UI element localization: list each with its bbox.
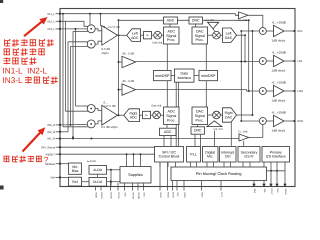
svg-text:steps: steps	[102, 51, 110, 55]
svg-text:Ref: Ref	[51, 176, 56, 180]
svg-text:1dB steps: 1dB steps	[272, 129, 286, 133]
svg-text:AGC: AGC	[164, 130, 172, 134]
svg-text:WCLK: WCLK	[284, 189, 287, 196]
svg-text:GPIO: GPIO	[183, 192, 186, 198]
svg-text:0.5 dB steps: 0.5 dB steps	[101, 125, 118, 129]
svg-text:-72...6dB: -72...6dB	[237, 130, 248, 133]
svg-text:miniDSP: miniDSP	[201, 74, 216, 78]
svg-text:DAC: DAC	[225, 116, 233, 120]
svg-text:VSS: VSS	[124, 192, 127, 197]
svg-text:Right: Right	[225, 111, 233, 115]
svg-text:VSS: VSS	[143, 192, 146, 197]
svg-text:IOVSS: IOVSS	[132, 192, 135, 199]
svg-text:?: ?	[44, 155, 49, 165]
svg-text:-36...0 dB: -36...0 dB	[122, 52, 135, 56]
svg-text:ALDO: ALDO	[93, 168, 102, 172]
svg-text:SSZ: SSZ	[176, 192, 179, 197]
svg-text:IN3_R: IN3_R	[47, 123, 55, 127]
svg-text:LOL: LOL	[297, 59, 303, 63]
svg-text:Pin Muxing/ Clock Routing: Pin Muxing/ Clock Routing	[196, 171, 242, 176]
svg-text:DVSS: DVSS	[117, 192, 120, 198]
svg-text:SDA: SDA	[253, 189, 256, 194]
svg-text:Ctrl: Ctrl	[225, 155, 231, 159]
svg-text:DIN2: DIN2	[201, 192, 204, 198]
svg-text:IN1-L IN2-L: IN1-L IN2-L	[3, 67, 48, 76]
svg-text:DRC: DRC	[194, 129, 202, 133]
svg-text:DVDD: DVDD	[100, 192, 103, 199]
svg-text:DOUT: DOUT	[270, 189, 273, 196]
svg-text:INT1: INT1	[220, 192, 223, 198]
svg-text:Proc.: Proc.	[196, 38, 204, 42]
svg-text:PLL: PLL	[190, 153, 196, 157]
svg-text:Vol. Ctrl: Vol. Ctrl	[214, 128, 224, 131]
svg-text:ADC: ADC	[130, 116, 138, 120]
svg-text:IN2_L: IN2_L	[48, 19, 56, 23]
svg-text:-6...+29dB: -6...+29dB	[272, 20, 286, 24]
svg-text:Control Block: Control Block	[159, 155, 180, 159]
svg-text:DAC: DAC	[225, 36, 233, 40]
svg-text:-6...+29dB: -6...+29dB	[272, 80, 286, 84]
svg-text:MOSI: MOSI	[172, 192, 175, 198]
svg-text:Mic.: Mic.	[207, 155, 213, 159]
svg-text:AVDD: AVDD	[95, 192, 98, 198]
svg-text:IN3-L: IN3-L	[3, 76, 23, 85]
svg-text:MISO: MISO	[167, 192, 170, 198]
svg-text:LOR: LOR	[297, 89, 303, 93]
svg-text:Supplies: Supplies	[128, 173, 143, 177]
svg-text:miniDSP: miniDSP	[155, 74, 170, 78]
svg-text:-6...+29dB: -6...+29dB	[272, 50, 286, 54]
svg-text:Interface: Interface	[177, 76, 191, 80]
svg-text:IN2_R: IN2_R	[47, 130, 55, 134]
svg-text:1dB steps: 1dB steps	[272, 69, 286, 73]
svg-text:I2S Interface: I2S Interface	[266, 155, 286, 159]
svg-text:+47.5 dB: +47.5 dB	[104, 104, 116, 108]
svg-text:-36...0 dB: -36...0 dB	[122, 79, 135, 83]
svg-text:Vol. Ctrl: Vol. Ctrl	[205, 19, 215, 22]
svg-text:LDOIN: LDOIN	[110, 192, 113, 199]
svg-text:IN3_L: IN3_L	[48, 27, 56, 31]
svg-text:IOVDD: IOVDD	[137, 192, 140, 199]
svg-text:Gain Adj.: Gain Adj.	[151, 104, 162, 107]
svg-text:DLDO: DLDO	[93, 180, 103, 184]
svg-text:IN1_R: IN1_R	[47, 137, 55, 141]
svg-text:HPR: HPR	[297, 119, 303, 123]
svg-text:SPI_Select: SPI_Select	[41, 145, 55, 149]
svg-text:-72...6dB: -72...6dB	[237, 19, 248, 22]
svg-text:Proc.: Proc.	[167, 38, 175, 42]
svg-text:0...+47.5 dB: 0...+47.5 dB	[104, 25, 120, 29]
svg-text:HPL: HPL	[297, 29, 303, 33]
svg-text:DIN: DIN	[276, 189, 279, 193]
svg-text:Left: Left	[226, 31, 232, 35]
svg-text:Bias: Bias	[72, 169, 79, 173]
svg-text:I2S IF: I2S IF	[244, 155, 253, 159]
svg-text:Ref: Ref	[72, 180, 77, 184]
svg-text:IN1_L: IN1_L	[48, 12, 56, 16]
svg-text:►AVdd: ►AVdd	[87, 160, 96, 163]
svg-text:Gain Adj.: Gain Adj.	[152, 42, 163, 45]
svg-text:Proc.: Proc.	[167, 118, 175, 122]
svg-text:1dB steps: 1dB steps	[272, 39, 286, 43]
svg-text:-6...+29dB: -6...+29dB	[272, 110, 286, 114]
svg-text:Proc.: Proc.	[196, 118, 204, 122]
svg-text:AGC: AGC	[167, 19, 175, 23]
svg-text:SCLK: SCLK	[159, 192, 162, 198]
svg-text:1dB steps: 1dB steps	[272, 99, 286, 103]
svg-text:DRC: DRC	[192, 19, 200, 23]
svg-text:ADC: ADC	[131, 36, 139, 40]
